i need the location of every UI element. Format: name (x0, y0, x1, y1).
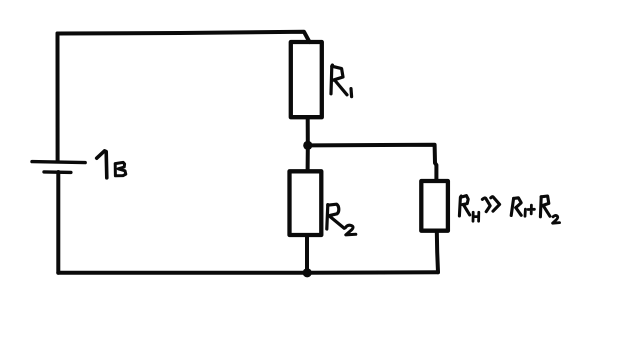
wire left (battery top lead) (56, 34, 60, 161)
bottom node junction dot (303, 268, 312, 277)
label RH >> R1+R2 (459, 196, 559, 224)
label R2 (327, 204, 356, 235)
wire bottom rail (58, 270, 438, 275)
wire R2 to bottom node (305, 235, 309, 269)
battery long plate (32, 162, 85, 163)
resistor R1 (291, 42, 322, 117)
label R1 (331, 65, 352, 97)
wire node A to RH branch (311, 145, 436, 181)
resistor R2 (290, 171, 322, 235)
wire battery to bottom-left corner (56, 172, 60, 273)
wire node A to R2 (306, 149, 310, 171)
label 1в value (97, 151, 126, 178)
battery B1 (32, 162, 85, 173)
battery short plate (44, 170, 71, 174)
wire RH to bottom rail (437, 231, 438, 273)
resistor RH load (421, 181, 448, 231)
node A junction dot (303, 141, 312, 150)
wire R1 to node A (306, 117, 310, 141)
wire top from battery to R1 (58, 32, 310, 42)
